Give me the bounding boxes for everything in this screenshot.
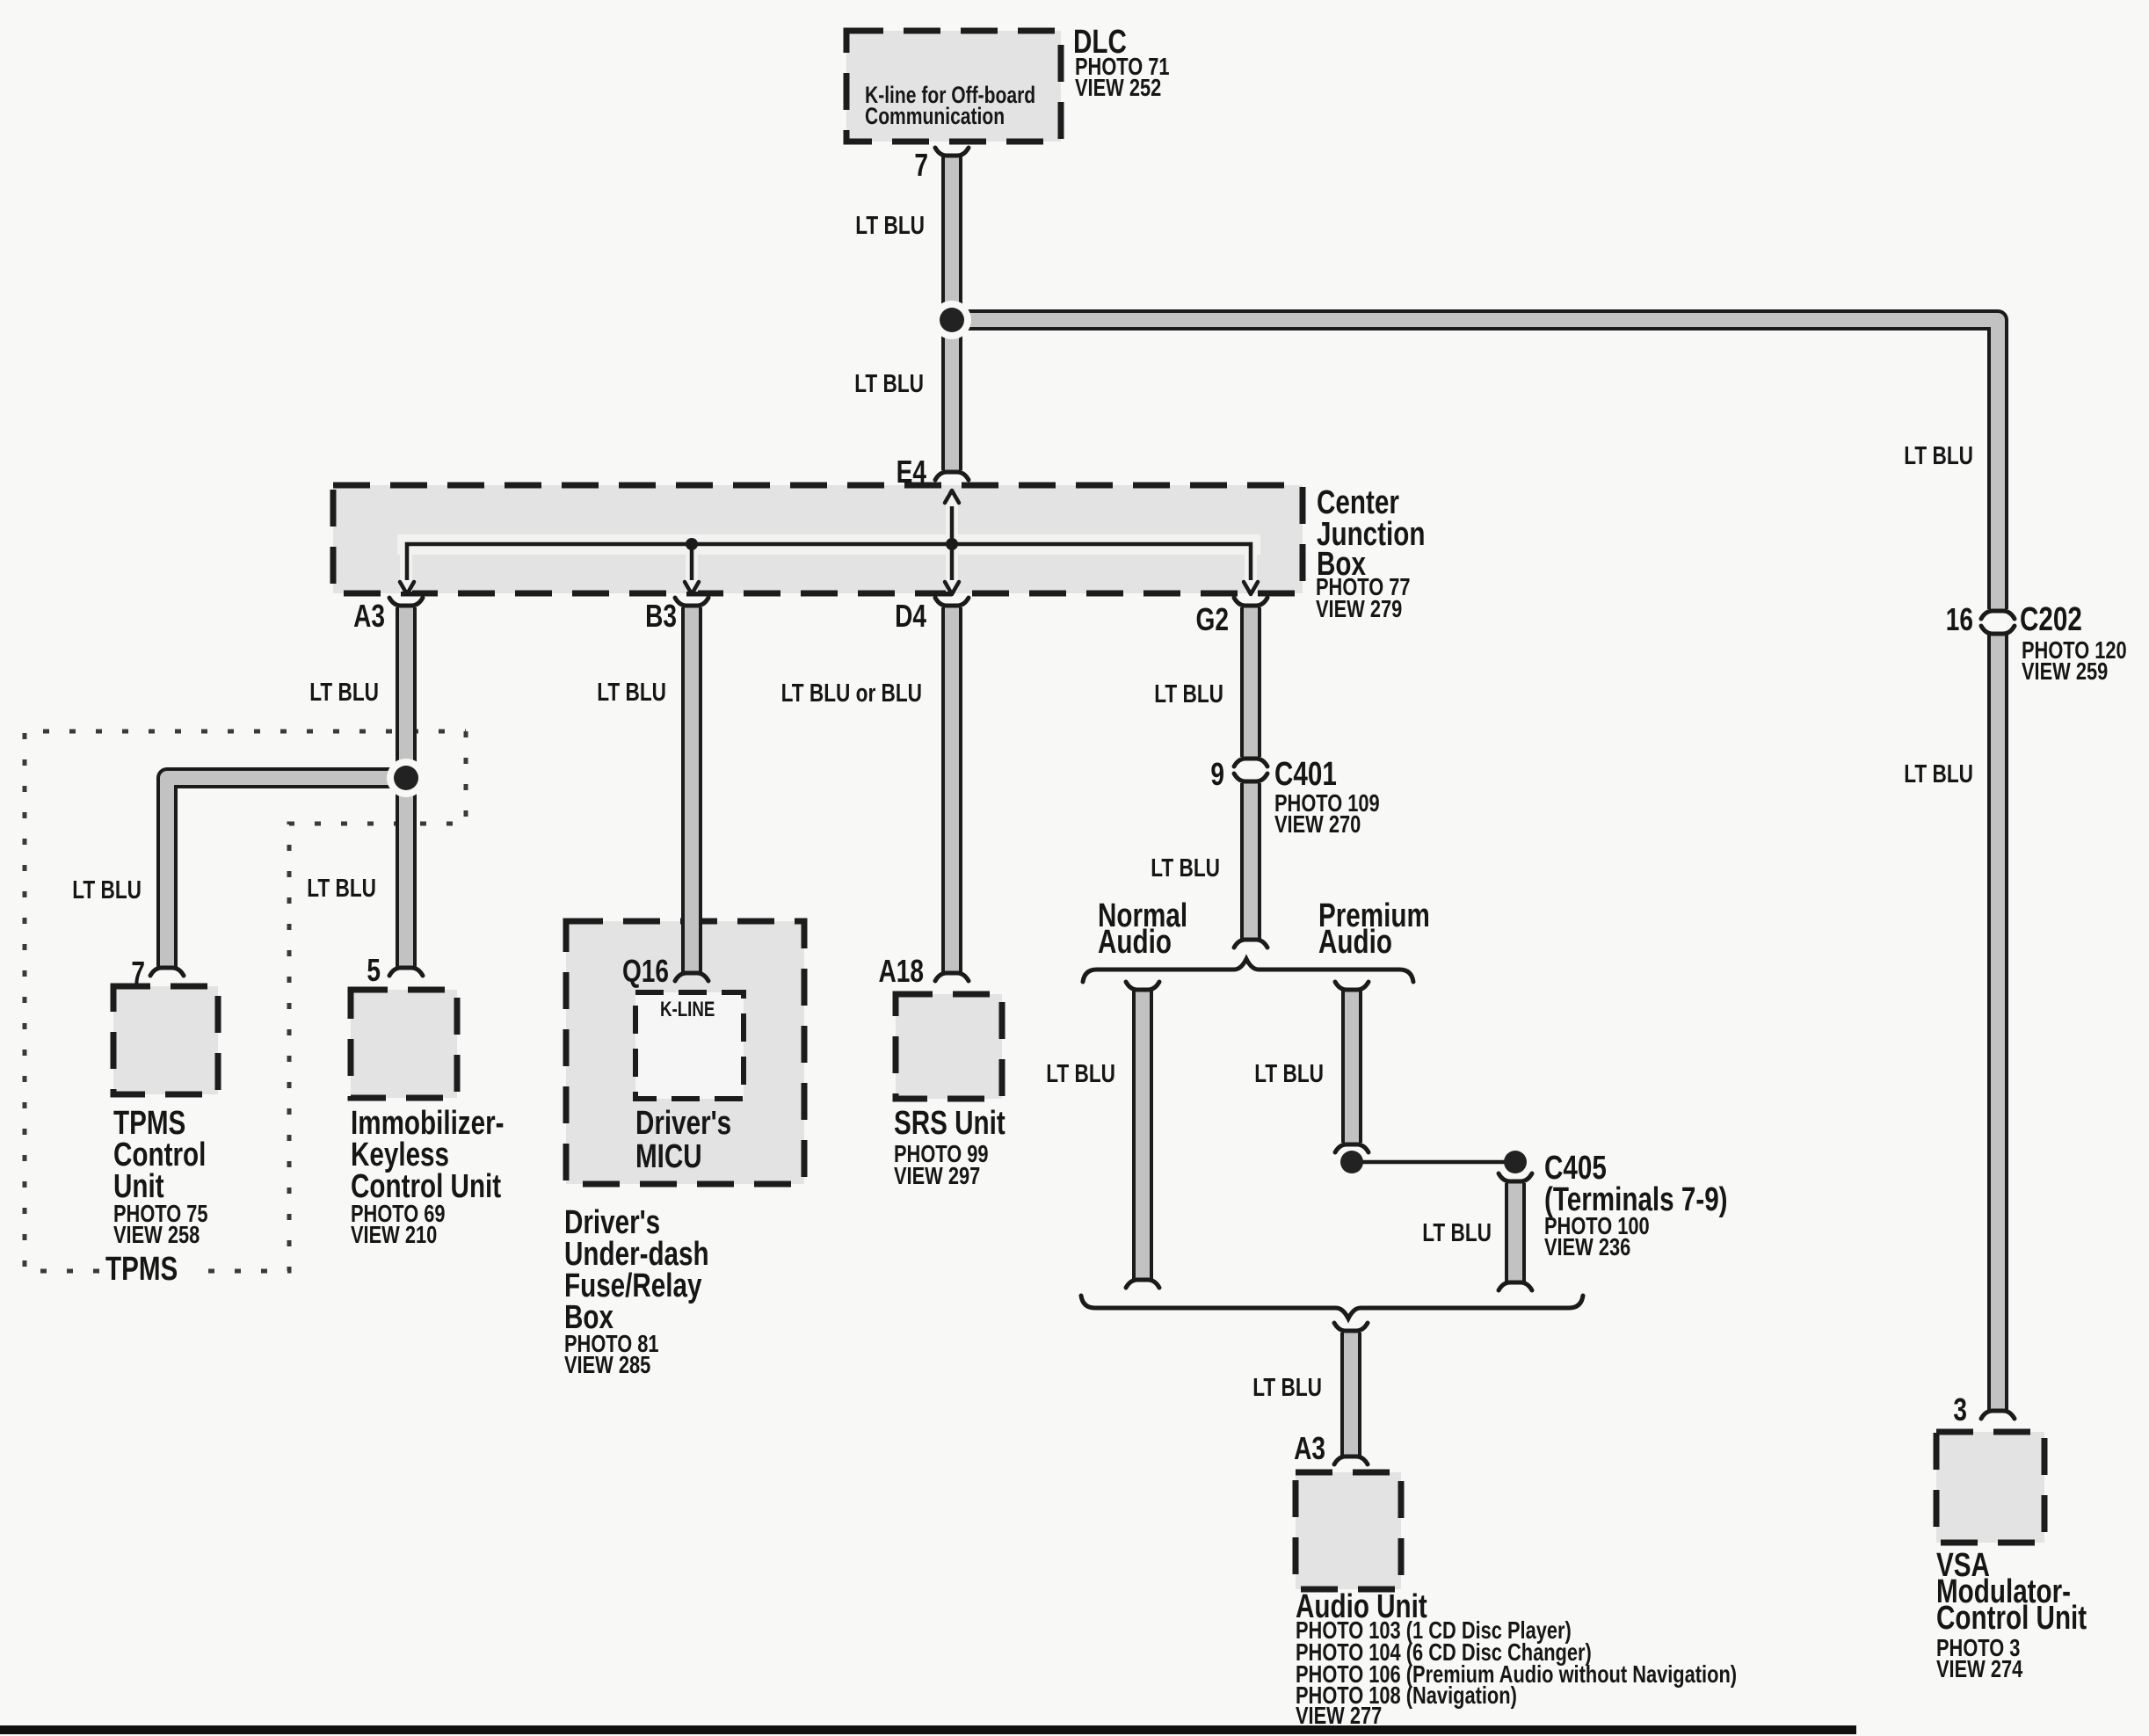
- CJB bus junction dot at D4: [946, 538, 958, 550]
- CJB bus junction dot at B3: [686, 538, 698, 550]
- svg-text:E4: E4: [897, 454, 926, 490]
- junction dot above immobilizer (TPMS branch): [387, 759, 425, 797]
- cap: immobilizer pin 5: [389, 968, 423, 976]
- svg-text:VIEW 259: VIEW 259: [2022, 657, 2108, 685]
- cap: SRS pin A18: [935, 973, 969, 981]
- cap: B3 wire top: [675, 598, 708, 606]
- cap: audio unit wire top: [1334, 1323, 1368, 1331]
- cap: MICU pin Q16: [675, 973, 708, 981]
- brace under audio branches to audio unit: [1081, 1296, 1583, 1318]
- cap: G2 wire bottom above brace: [1234, 940, 1267, 948]
- svg-text:7: 7: [131, 955, 145, 991]
- svg-text:VIEW 270: VIEW 270: [1274, 810, 1361, 838]
- label TPMS control unit: [113, 1105, 185, 1142]
- cap: DLC wire top: [935, 148, 969, 156]
- svg-text:B3: B3: [645, 599, 677, 634]
- wire label LT BLU (premium audio): [1254, 1058, 1324, 1087]
- svg-text:VIEW 258: VIEW 258: [113, 1221, 200, 1248]
- svg-text:C202: C202: [2020, 601, 2082, 638]
- wire label LT BLU (B3): [597, 677, 666, 706]
- svg-text:A3: A3: [353, 599, 385, 634]
- wire: CJB D4 down to SRS unit A18: [941, 607, 962, 972]
- svg-text:LT BLU: LT BLU: [307, 873, 376, 902]
- cap: premium audio wire bottom at C405 dot: [1335, 1144, 1369, 1152]
- label normal audio: [1098, 897, 1187, 934]
- label driver's under-dash fuse/relay box: [564, 1204, 660, 1241]
- svg-text:A18: A18: [879, 954, 924, 989]
- label immobilizer-keyless control unit: [351, 1105, 505, 1142]
- svg-text:K-LINE: K-LINE: [660, 998, 715, 1021]
- wire: CJB B3 down to MICU Q16: [681, 607, 702, 972]
- wire label LT BLU (DLC lower): [854, 368, 924, 397]
- label SRS unit: [894, 1105, 1006, 1142]
- svg-text:5: 5: [367, 953, 381, 988]
- wire label LT BLU (A3): [309, 677, 379, 706]
- pin A3 audio unit: [1294, 1431, 1325, 1466]
- label C401: [1274, 756, 1337, 793]
- svg-text:LT BLU: LT BLU: [1904, 440, 1973, 469]
- label premium audio: [1318, 897, 1430, 934]
- DLC box label line 2: [865, 104, 1005, 130]
- pin 3 VSA: [1953, 1392, 1967, 1427]
- svg-text:9: 9: [1210, 757, 1224, 792]
- CJB arrow to B3: [685, 582, 699, 594]
- cap: C405 drop top: [1499, 1173, 1532, 1181]
- pin E4: [897, 454, 926, 490]
- svg-text:Control Unit: Control Unit: [1936, 1600, 2087, 1637]
- DLC connector box: [846, 31, 1061, 142]
- wire: junction left and down to TPMS control unit pin 7: [167, 778, 406, 967]
- CJB arrow to D4: [945, 582, 959, 594]
- cap: A3 wire top: [389, 598, 423, 606]
- pin 5 immobilizer: [367, 953, 381, 988]
- DLC box label line 1: [865, 83, 1035, 109]
- pin 16 C202: [1946, 602, 1973, 637]
- wire label LT BLU (TPMS): [72, 875, 142, 904]
- svg-text:VIEW 297: VIEW 297: [894, 1162, 980, 1189]
- SRS unit box: [896, 994, 1002, 1099]
- wire label LT BLU (G2): [1154, 679, 1223, 708]
- label C202: [2020, 601, 2082, 638]
- svg-text:LT BLU: LT BLU: [854, 368, 924, 397]
- CJB arrow to A3: [400, 582, 414, 594]
- CJB internal bus wire: [407, 544, 1251, 580]
- wire: C401 down to audio branch brace: [1240, 783, 1261, 939]
- svg-text:Driver's: Driver's: [635, 1105, 731, 1142]
- label driver's MICU: [635, 1105, 731, 1142]
- svg-text:VIEW 252: VIEW 252: [1075, 74, 1161, 101]
- svg-text:Audio: Audio: [1098, 924, 1172, 961]
- VSA modulator-control unit box: [1936, 1432, 2044, 1543]
- svg-text:16: 16: [1946, 602, 1973, 637]
- audio unit box: [1296, 1472, 1401, 1589]
- wire: CJB A3 down to junction above immobilizer: [396, 607, 417, 967]
- cap: audio unit wire bottom: [1334, 1456, 1368, 1464]
- connector C401 upper half: [1234, 759, 1267, 766]
- CJB bus branch stub B3: [690, 544, 694, 580]
- cap: TPMS pin 7: [150, 968, 184, 976]
- brace over normal/premium audio branches: [1083, 959, 1413, 982]
- svg-text:Q16: Q16: [622, 954, 669, 989]
- svg-text:C401: C401: [1274, 756, 1337, 793]
- TPMS dashed region outline: [191, 731, 466, 1271]
- wire: premium audio branch down to C405 node: [1341, 991, 1362, 1143]
- wire: C202 down to VSA modulator (LT BLU): [1987, 635, 2008, 1411]
- wire label LT BLU (DLC upper): [855, 210, 925, 239]
- connector C202 lower half: [1981, 626, 2015, 634]
- svg-text:7: 7: [914, 148, 928, 183]
- label DLC: [1073, 24, 1127, 61]
- pin 9 C401: [1210, 757, 1224, 792]
- svg-text:Communication: Communication: [865, 104, 1005, 130]
- svg-text:LT BLU: LT BLU: [855, 210, 925, 239]
- label TPMS region: [105, 1251, 178, 1288]
- svg-text:LT BLU or BLU: LT BLU or BLU: [781, 678, 922, 707]
- cap: VSA wire bottom pin 3: [1981, 1411, 2015, 1419]
- connector C202 upper half: [1981, 611, 2015, 619]
- pin 7 TPMS: [131, 955, 145, 991]
- svg-text:Audio: Audio: [1318, 924, 1392, 961]
- svg-text:LT BLU: LT BLU: [1904, 759, 1973, 788]
- CJB bus branch stub D4/E4: [950, 506, 955, 580]
- cap: normal audio wire bottom: [1126, 1280, 1159, 1288]
- svg-text:D4: D4: [895, 599, 926, 634]
- svg-text:VIEW 279: VIEW 279: [1316, 595, 1402, 622]
- wire label LT BLU (right lower): [1904, 759, 1973, 788]
- thin wire link between C405 junction dots: [1352, 1160, 1515, 1165]
- svg-text:LT BLU: LT BLU: [597, 677, 666, 706]
- cap: C405 drop bottom: [1499, 1282, 1532, 1290]
- wire label LT BLU (normal audio): [1046, 1058, 1115, 1087]
- svg-text:LT BLU: LT BLU: [1254, 1058, 1324, 1087]
- svg-text:LT BLU: LT BLU: [309, 677, 379, 706]
- cap: premium audio wire top: [1335, 982, 1369, 990]
- C405 junction dot right: [1504, 1151, 1527, 1173]
- CJB arrow to G2: [1244, 582, 1258, 594]
- immobilizer-keyless control unit box: [351, 990, 457, 1098]
- svg-text:LT BLU: LT BLU: [1154, 679, 1223, 708]
- svg-text:VIEW 285: VIEW 285: [564, 1351, 650, 1378]
- wire: DLC pin 7 down to CJB E4 (LT BLU): [941, 155, 962, 470]
- pin 7 DLC: [914, 148, 928, 183]
- wire label LT BLU (immobilizer): [307, 873, 376, 902]
- CJB internal bus halo: [397, 534, 1260, 555]
- wire: audio unit pin A3: [1340, 1333, 1361, 1456]
- svg-text:G2: G2: [1196, 602, 1229, 637]
- svg-text:MICU: MICU: [635, 1138, 702, 1175]
- label C405: [1544, 1150, 1607, 1187]
- wire label LT BLU (audio unit): [1252, 1372, 1322, 1401]
- label VSA modulator-control unit: [1936, 1547, 1990, 1584]
- wire: normal audio branch: [1132, 991, 1153, 1279]
- svg-text:LT BLU: LT BLU: [1151, 853, 1220, 882]
- TPMS control unit box: [113, 986, 218, 1094]
- pin A18 SRS: [879, 954, 924, 989]
- cap: D4 wire top: [935, 598, 969, 606]
- wire: C405 terminal drop: [1505, 1183, 1526, 1282]
- label center junction box: [1317, 484, 1399, 521]
- svg-text:A3: A3: [1294, 1431, 1325, 1466]
- svg-text:LT BLU: LT BLU: [1046, 1058, 1115, 1087]
- pin G2 CJB: [1196, 602, 1229, 637]
- cap: E4 wire bottom: [935, 472, 969, 480]
- CJB arrow up to E4: [945, 490, 959, 503]
- svg-text:TPMS: TPMS: [105, 1251, 178, 1288]
- svg-text:LT BLU: LT BLU: [1422, 1217, 1492, 1246]
- wire: junction to right edge and down to C202 (LT BLU): [952, 320, 1998, 609]
- svg-text:LT BLU: LT BLU: [1252, 1372, 1322, 1401]
- wire: CJB G2 down to C401: [1240, 607, 1261, 757]
- svg-text:VIEW 210: VIEW 210: [351, 1221, 437, 1248]
- pin Q16 MICU: [622, 954, 669, 989]
- pin B3 CJB: [645, 599, 677, 634]
- page bottom scan edge bar: [0, 1725, 1856, 1734]
- wire label LT BLU (C405 drop): [1422, 1217, 1492, 1246]
- pin A3 CJB: [353, 599, 385, 634]
- cap: G2 wire top: [1234, 598, 1267, 606]
- C405 junction dot left: [1340, 1151, 1363, 1173]
- svg-text:SRS Unit: SRS Unit: [894, 1105, 1006, 1142]
- label audio unit: [1296, 1588, 1427, 1625]
- driver's MICU K-LINE box: [635, 992, 744, 1099]
- svg-text:3: 3: [1953, 1392, 1967, 1427]
- connector C401 lower half: [1234, 774, 1267, 781]
- driver's under-dash fuse/relay box: [566, 921, 804, 1184]
- label K-LINE: [660, 998, 715, 1021]
- junction dot below DLC: [933, 301, 971, 339]
- svg-text:LT BLU: LT BLU: [72, 875, 142, 904]
- wire label LT BLU or BLU (D4): [781, 678, 922, 707]
- wire label LT BLU (right upper): [1904, 440, 1973, 469]
- svg-text:VIEW 274: VIEW 274: [1936, 1655, 2022, 1682]
- wire label LT BLU (below C401): [1151, 853, 1220, 882]
- center junction box: [333, 485, 1303, 593]
- cap: normal audio wire top: [1126, 982, 1159, 990]
- svg-text:VIEW 236: VIEW 236: [1544, 1233, 1630, 1260]
- pin D4 CJB: [895, 599, 926, 634]
